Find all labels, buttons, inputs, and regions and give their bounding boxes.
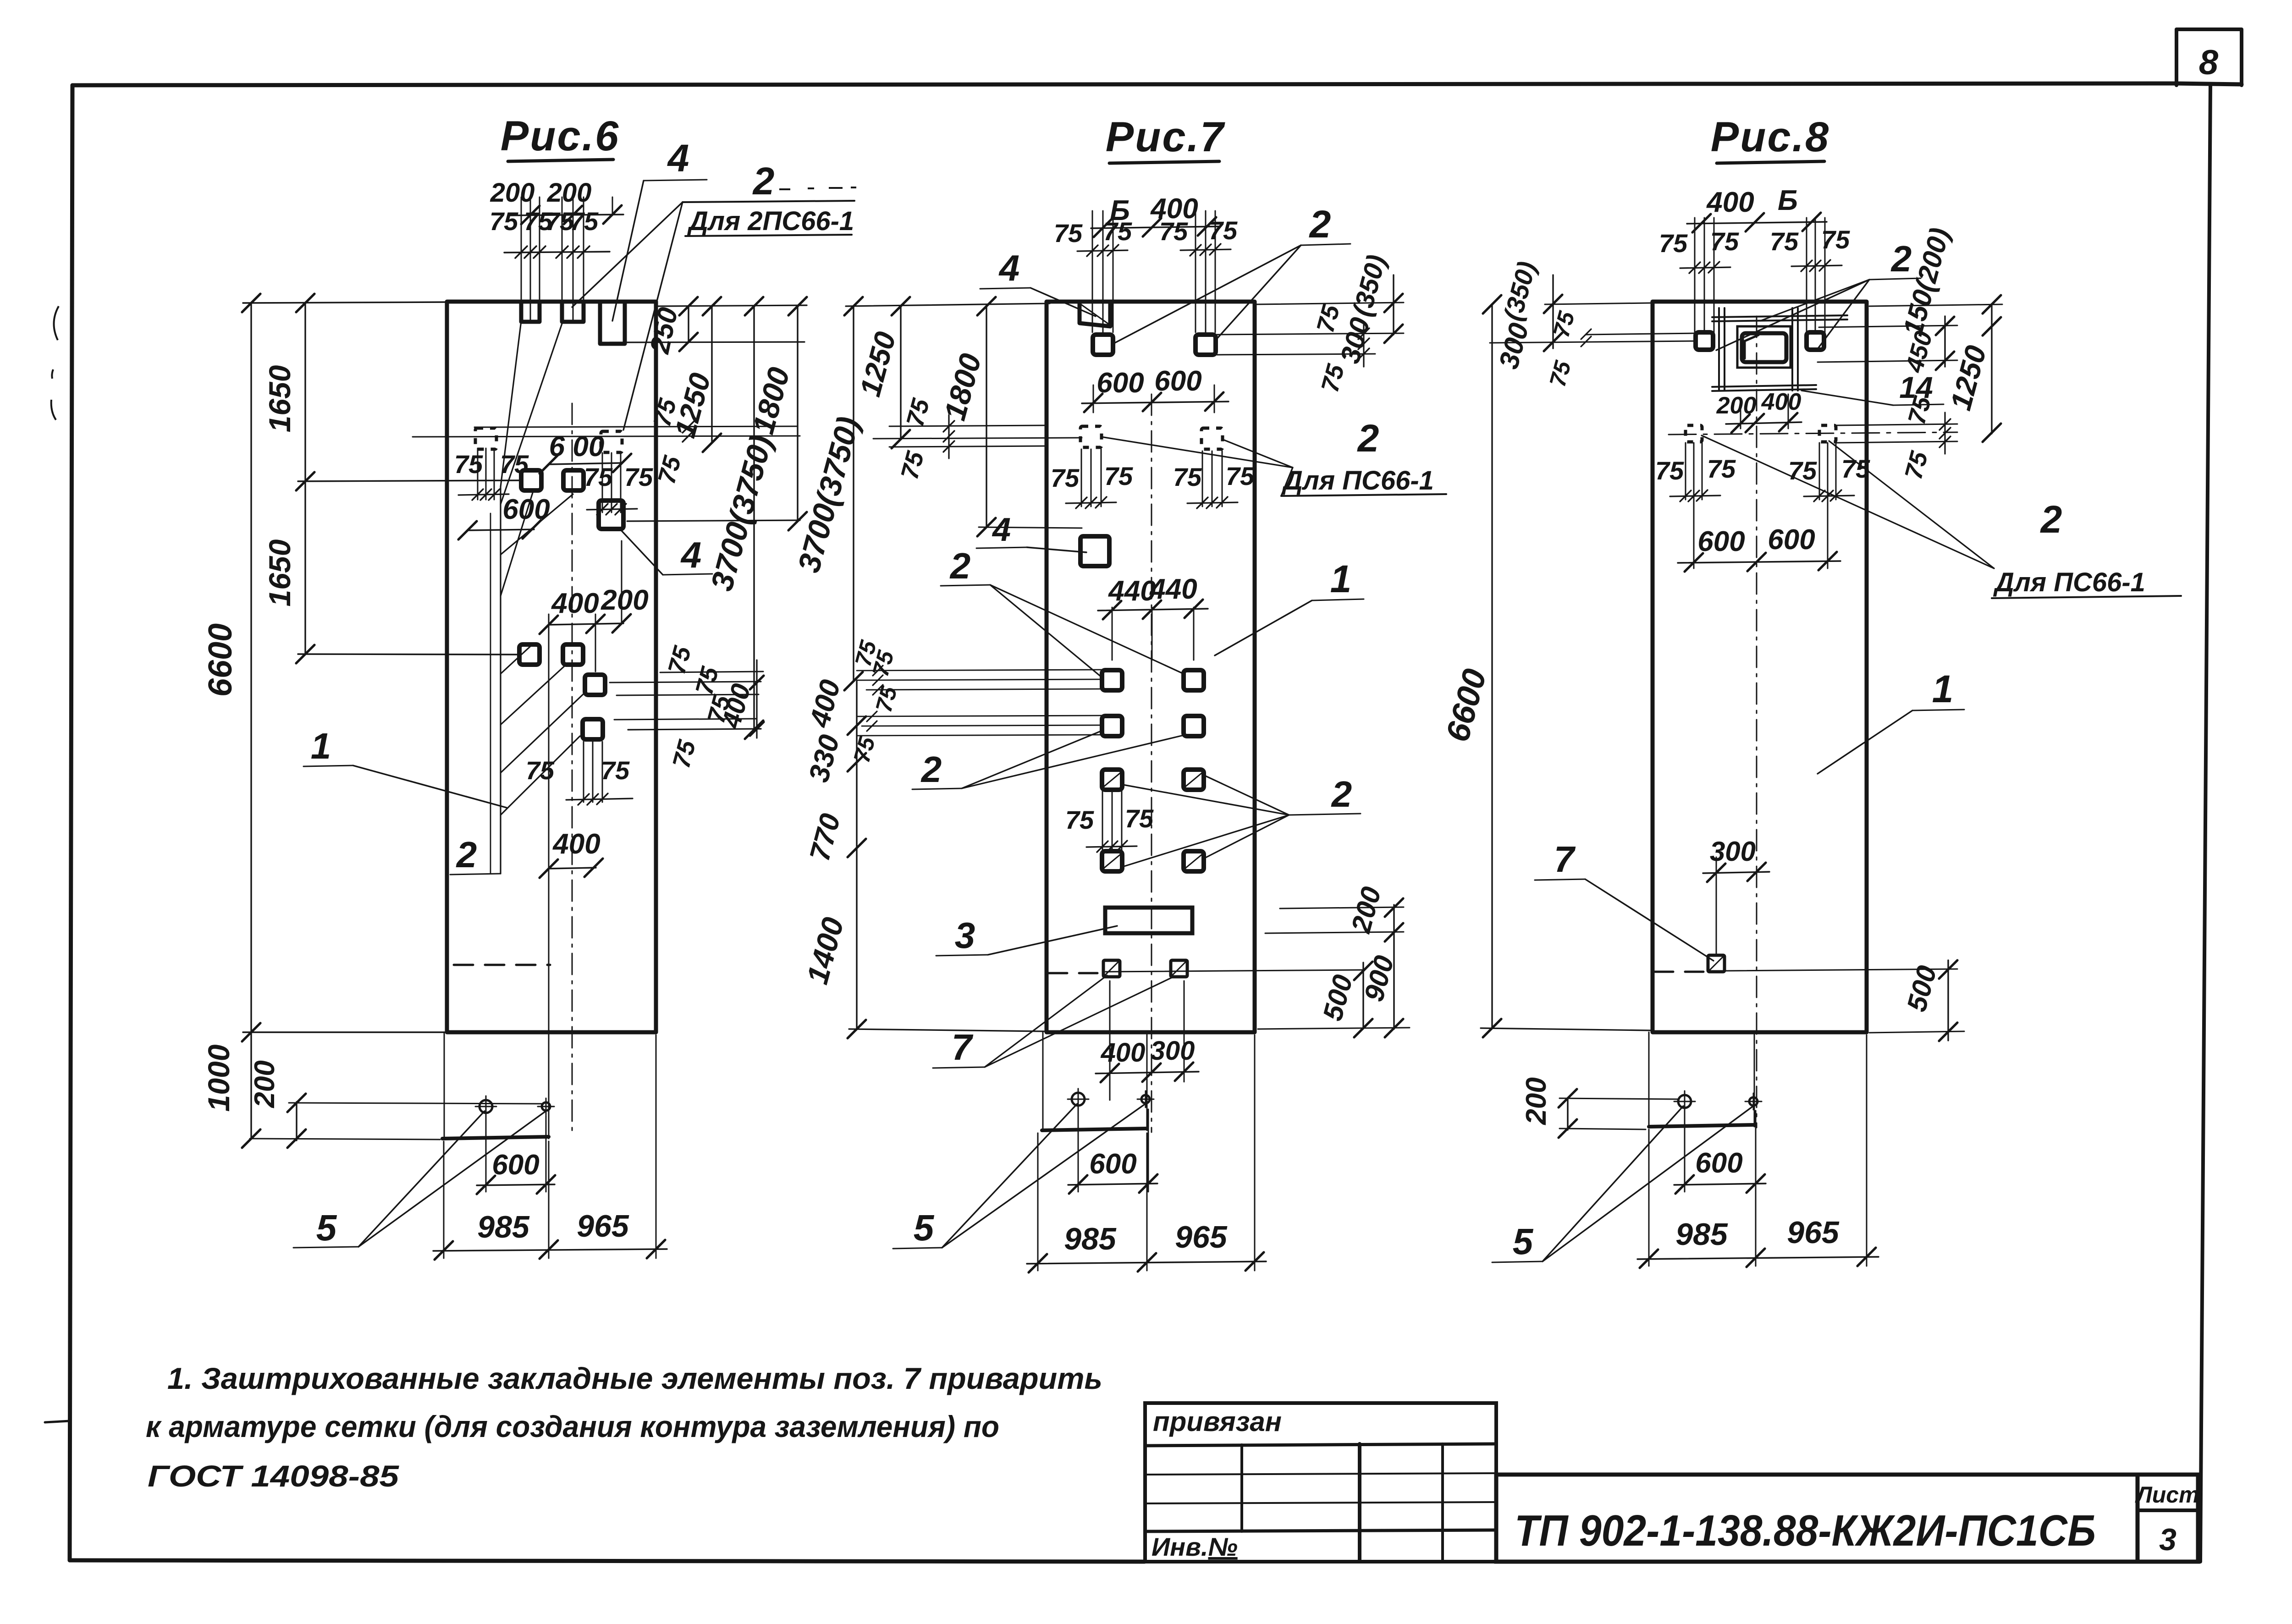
- fig6 embed square row3: [583, 719, 603, 739]
- fig7 grid embed B-right: [1184, 716, 1204, 736]
- fig6 dim 75 75 below row3: [526, 742, 633, 805]
- svg-text:965: 965: [1175, 1220, 1228, 1255]
- panel 1 outline (fig 7): [1047, 302, 1255, 1032]
- svg-text:4: 4: [998, 248, 1020, 288]
- fig7 leader label 2 (grid rows A): [941, 545, 1184, 677]
- svg-text:75: 75: [454, 450, 483, 479]
- fig6 leader label 2 (bottom) with riser: [450, 321, 562, 875]
- fig7 dim 300 (350) top right: [1334, 252, 1403, 367]
- fig6 embed square row2 left: [519, 644, 540, 665]
- fig6 embed item 4 plate: [599, 501, 623, 529]
- fig7 welded embed 7 left: [1103, 960, 1120, 977]
- svg-text:Для ПС66-1: Для ПС66-1: [1281, 466, 1434, 495]
- svg-text:75: 75: [1104, 462, 1133, 490]
- fig8 dim 75 75 (top left): [1659, 227, 1739, 273]
- svg-text:Рис.7: Рис.7: [1106, 114, 1225, 160]
- fig8 leader label 2 для ПС66-1: [1702, 435, 2181, 598]
- fig6 buried foot: [442, 1032, 549, 1139]
- fig8 centre line: [1756, 316, 1758, 1128]
- fig8 anchor horizontals bottom: [1712, 385, 1816, 387]
- fig8 embedded channel item 14: outer opening: [1737, 326, 1791, 368]
- svg-text:5: 5: [316, 1207, 337, 1248]
- fig8 dim 75 75 (top right): [1770, 225, 1850, 271]
- svg-text:2: 2: [1309, 203, 1331, 246]
- fig6 dim 400 (bottom of embeds): [540, 828, 603, 878]
- fig6 dim 1250: [668, 297, 721, 452]
- svg-text:965: 965: [577, 1209, 629, 1244]
- fig7 dim 75 75 (top left pair): [1054, 217, 1132, 256]
- fig7 buried foot: [1042, 1032, 1147, 1130]
- svg-text:400: 400: [1706, 187, 1754, 218]
- svg-text:2: 2: [949, 545, 971, 586]
- svg-text:600: 600: [1154, 365, 1201, 397]
- svg-text:200: 200: [249, 1060, 281, 1108]
- fig7 dim Б 400 (top): [1091, 193, 1219, 237]
- fig7 dim 3700(3750): [791, 297, 1050, 690]
- fig8 leader label 1: [1818, 667, 1964, 774]
- svg-text:2: 2: [1331, 774, 1352, 815]
- svg-text:1: 1: [1932, 667, 1954, 710]
- svg-text:8: 8: [2199, 43, 2219, 82]
- fig6 dim 1000: [202, 1044, 260, 1148]
- svg-text:75: 75: [526, 756, 555, 785]
- figure 6 title Рис.6: [501, 113, 620, 161]
- sheet box Лист: [2135, 1475, 2199, 1562]
- fig6 dim 600 (upper, written 6 00): [540, 431, 631, 473]
- svg-text:200: 200: [547, 178, 592, 208]
- fig7 lifting hole left: [1072, 1093, 1085, 1106]
- fig7 leader label 4 (top): [980, 248, 1096, 316]
- fig6 dim 75 75 left of row1: [454, 448, 529, 500]
- fig7 dim 75 75 right of row1: [1311, 302, 1369, 395]
- fig7 dim 1800: [937, 297, 1082, 536]
- svg-text:2: 2: [1890, 238, 1912, 279]
- svg-text:ТП 902-1-138.88-КЖ2И-ПС1СБ: ТП 902-1-138.88-КЖ2И-ПС1СБ: [1515, 1506, 2096, 1555]
- fig6 top notch item 4: [600, 302, 625, 344]
- fig7 top extension lines: [1092, 211, 1215, 332]
- fig7 dim 500 (right): [1317, 962, 1372, 1037]
- svg-text:75: 75: [1125, 804, 1154, 833]
- svg-text:привязан: привязан: [1153, 1406, 1282, 1437]
- svg-text:600: 600: [492, 1149, 539, 1181]
- fig6 dim 400 200: [540, 541, 649, 1054]
- fig7 grid embed D-right (hatched pos7): [1184, 851, 1204, 871]
- fig6 top notch 2: [562, 302, 584, 322]
- fig8 dim 75 75 (below dashed embeds right): [1788, 443, 1870, 501]
- svg-text:75: 75: [1051, 463, 1080, 492]
- svg-text:75: 75: [1209, 216, 1238, 245]
- fig6 top extension lines: [521, 197, 612, 321]
- fig7 leader label 3: [936, 915, 1117, 956]
- fig8 top extension lines: [1695, 218, 1825, 332]
- fig8 dashed embed left: [1686, 425, 1702, 442]
- title block small table: [1145, 1403, 1496, 1562]
- svg-text:300: 300: [1151, 1036, 1195, 1066]
- fig8 dim 600 600: [1678, 447, 1840, 572]
- fig8 leader label 2 (top): [1716, 238, 1921, 350]
- fig7 embed square row1 right: [1196, 335, 1216, 355]
- fig6 dim 985 965: [433, 1035, 667, 1260]
- svg-text:965: 965: [1787, 1215, 1840, 1250]
- svg-text:200: 200: [1716, 392, 1757, 419]
- fig8 left dim 200 (foot): [1521, 1077, 1678, 1138]
- fig6 embed square row1 right: [563, 470, 584, 490]
- fig8 dim 75 75 (below dashed embeds left): [1655, 443, 1736, 501]
- svg-text:2: 2: [456, 834, 477, 875]
- fig6 dim 200 200 (top): [490, 178, 623, 224]
- fig8 dim 985 965: [1637, 1035, 1879, 1268]
- fig6 leader label 4 (top): [612, 137, 707, 321]
- svg-text:Рис.6: Рис.6: [501, 113, 620, 160]
- svg-text:2: 2: [2040, 498, 2062, 541]
- fig6 dashed embed (left, for 2ПС66-1): [475, 428, 496, 449]
- fig6 dim 1650 upper: [263, 294, 523, 663]
- fig8 leader label 5: [1492, 1106, 1752, 1262]
- fig8 dim 200 400 (below item 14): [1716, 389, 1802, 433]
- svg-text:75: 75: [490, 207, 518, 236]
- svg-text:600: 600: [502, 494, 550, 525]
- svg-text:400: 400: [552, 828, 600, 860]
- fig6 dim 75 75 right of row1: [584, 453, 653, 515]
- fig6 embed square row2 right: [563, 644, 583, 665]
- svg-text:Инв.№: Инв.№: [1152, 1532, 1238, 1561]
- fig6 leader label 5: [293, 1111, 545, 1248]
- svg-text:75: 75: [624, 462, 653, 491]
- fig8 buried foot: [1649, 1032, 1754, 1127]
- fig6 right lower extension lines: [610, 643, 764, 771]
- fig7 dim 75 75 below grid C: [1065, 791, 1154, 852]
- svg-text:75: 75: [1710, 227, 1739, 256]
- svg-text:200: 200: [490, 178, 535, 208]
- svg-text:2: 2: [752, 160, 775, 203]
- fig8 right bottom extension lines: [1725, 969, 1964, 1033]
- title bar: [1496, 1475, 2138, 1562]
- fig7 lifting hole right: [1141, 1095, 1150, 1103]
- fig7 dim 75 75 below dashed embeds (left): [1051, 449, 1133, 508]
- svg-text:6600: 6600: [202, 623, 239, 697]
- svg-text:5: 5: [1513, 1221, 1534, 1262]
- fig7 grid embed A-left: [1102, 670, 1122, 690]
- fig8 embed square row1 right: [1807, 332, 1824, 350]
- fig8 item 14 inner plate: [1742, 333, 1786, 362]
- fig7 grid embed B-left: [1102, 716, 1122, 736]
- fig6 leader label 4 (mid): [622, 531, 712, 575]
- svg-text:200: 200: [1521, 1077, 1552, 1125]
- fig8 dim 1250: [1944, 295, 2001, 442]
- svg-text:Для ПС66-1: Для ПС66-1: [1993, 567, 2145, 597]
- svg-text:75: 75: [1821, 225, 1850, 254]
- fig7 grid embed C-left (hatched pos7): [1102, 770, 1122, 790]
- fig7 welded embed 7 right: [1171, 960, 1187, 977]
- svg-text:600: 600: [1768, 524, 1815, 556]
- fig6 lifting hole left (pos 5): [479, 1100, 492, 1113]
- fig8 lifting hole left: [1678, 1095, 1691, 1108]
- fig7 centre line: [1151, 394, 1152, 1132]
- fig8 leader label 7: [1535, 839, 1713, 961]
- fig8 leader label 14: [1802, 370, 1944, 405]
- fold tick on left border: [45, 1421, 70, 1422]
- fig6 leader label 1: [303, 726, 507, 808]
- fig7 embed item 4 plate: [1080, 536, 1109, 566]
- fig6 dashed ground level line: [454, 964, 550, 966]
- fig8 anchor horizontals top: [1712, 315, 1847, 317]
- svg-text:3: 3: [2159, 1522, 2176, 1557]
- fig7 top corner notch item 4: [1080, 302, 1110, 326]
- fig6 dashed embed (right, for 2ПС66-1): [601, 431, 622, 452]
- figure 7 title Рис.7: [1106, 114, 1225, 163]
- svg-text:4: 4: [992, 512, 1011, 548]
- fig7 leader label 2 для ПС66-1: [1281, 417, 1446, 496]
- fig8 lifting hole right: [1749, 1097, 1758, 1106]
- svg-text:4: 4: [667, 137, 689, 180]
- svg-text:2: 2: [1357, 417, 1379, 460]
- fig7 leader label 2 (top): [1115, 203, 1350, 343]
- svg-text:к арматуре сетки (для создания: к арматуре сетки (для создания контура з…: [146, 1409, 999, 1443]
- fig8 dim 150(200): [1897, 225, 1956, 339]
- panel 1 outline (fig 8): [1653, 302, 1867, 1032]
- svg-text:7: 7: [952, 1027, 974, 1068]
- svg-text:75: 75: [1659, 229, 1688, 258]
- fig7 dim 400 300 (bottom): [1096, 981, 1199, 1100]
- fig6 dim 600 (foot holes): [477, 1116, 555, 1194]
- fig7 grid embed C-right (hatched pos7): [1184, 770, 1204, 790]
- svg-text:ГОСТ 14098-85: ГОСТ 14098-85: [148, 1459, 399, 1493]
- fig7 dim 1250: [854, 297, 910, 448]
- svg-text:Б: Б: [1778, 185, 1798, 216]
- svg-text:600: 600: [1695, 1147, 1742, 1179]
- fig8 level line through dashed embeds: [1669, 432, 1957, 435]
- fig7 dim 75 75 below dashed embeds (right): [1173, 451, 1255, 508]
- fig7 leader label 1: [1215, 557, 1364, 655]
- fig8 dim 500 (right): [1901, 960, 1957, 1041]
- fig7 leader label 2 (grid rows B): [912, 731, 1184, 790]
- fig6 dim 1800: [746, 297, 807, 530]
- fig6 hatch band diagonals: [501, 493, 585, 815]
- svg-text:1650: 1650: [263, 539, 297, 606]
- svg-text:400: 400: [1101, 1038, 1146, 1068]
- fig7 dashed embed left (для ПС66-1): [1080, 426, 1102, 447]
- svg-text:4: 4: [680, 534, 702, 575]
- fig7 dashed ground line: [1049, 972, 1100, 974]
- fig7 dashed embed right (для ПС66-1): [1201, 428, 1223, 449]
- svg-text:75: 75: [1065, 805, 1094, 834]
- fig6 top notch 1: [521, 302, 540, 322]
- fig8 dim 75 75 (right of dashed embeds): [1836, 393, 1957, 482]
- fig6 dim 250: [644, 297, 698, 357]
- fig7 grid embed A-right: [1184, 670, 1204, 690]
- fig7 dim 75 75 (left mid cluster): [889, 396, 1047, 482]
- svg-text:75: 75: [584, 462, 613, 491]
- svg-text:75: 75: [1054, 219, 1083, 248]
- fig6 embed square row1 left: [521, 470, 541, 490]
- fig8 dashed ground line: [1655, 971, 1708, 973]
- fig8 right extension lines (window): [1818, 304, 2002, 362]
- fig8 item 14 flap diagonal: [1745, 335, 1758, 358]
- svg-text:7: 7: [1554, 839, 1576, 880]
- svg-text:75: 75: [570, 207, 599, 236]
- fig6 dim 75 75 75 75 (top): [490, 207, 610, 258]
- fig8 left dim 75 (pair): [1544, 308, 1696, 389]
- fig6 lifting hole right (pos 5): [542, 1102, 550, 1111]
- fig7 embed plate item 3: [1105, 908, 1192, 933]
- fig6 embed square row2 offset: [585, 675, 605, 695]
- fig7 dim 75 75 (top right pair): [1159, 216, 1238, 256]
- svg-text:75: 75: [1103, 217, 1132, 246]
- svg-text:2: 2: [920, 749, 942, 790]
- svg-text:75: 75: [1770, 227, 1799, 256]
- fig7 dim 985 965: [1027, 1035, 1266, 1272]
- svg-text:Для 2ПС66-1: Для 2ПС66-1: [687, 206, 854, 236]
- svg-text:5: 5: [914, 1207, 935, 1248]
- svg-text:200: 200: [601, 584, 648, 616]
- fig8 anchor verticals left: [1718, 308, 1720, 391]
- svg-text:75: 75: [1226, 462, 1255, 490]
- svg-text:985: 985: [477, 1210, 530, 1244]
- svg-text:75: 75: [1173, 462, 1202, 491]
- fig8 dim 6600: [1439, 295, 1650, 1037]
- svg-text:75: 75: [1707, 454, 1736, 483]
- fig7 grid row extension lines to left stack: [848, 637, 1103, 765]
- fig7 dim 440 440: [1098, 573, 1208, 660]
- fig6 centre line: [572, 403, 573, 1132]
- fig8 anchor verticals right: [1791, 308, 1793, 391]
- svg-text:Рис.8: Рис.8: [1711, 114, 1830, 160]
- svg-text:985: 985: [1064, 1222, 1117, 1256]
- svg-text:3: 3: [955, 915, 975, 956]
- fig7 leader label 2 (grid right): [1123, 774, 1361, 866]
- fig7 leader label 4 (mid): [976, 512, 1086, 552]
- svg-text:440: 440: [1107, 575, 1156, 607]
- svg-text:75: 75: [601, 756, 630, 785]
- figure 8 title Рис.8: [1711, 114, 1830, 163]
- fig7 dim 900 (right): [1358, 952, 1403, 1037]
- fig7 dim 200 (right): [1345, 884, 1403, 1029]
- fig8 dashed embed right: [1819, 425, 1836, 442]
- fig7 leader label 7: [933, 975, 1174, 1068]
- fig7 mid level line through dashed embeds: [873, 437, 1293, 468]
- fig7 leader label 5: [893, 1104, 1144, 1249]
- fig8 embed square row1 left: [1696, 332, 1713, 350]
- svg-text:1: 1: [311, 726, 331, 766]
- svg-text:1: 1: [1330, 557, 1352, 600]
- fig6 mid level lines through dashed embeds: [413, 396, 800, 487]
- fig7 left lower dim column 400 330 770 1400: [800, 677, 1044, 1038]
- fig6 dim 6600: [202, 294, 449, 1139]
- panel 1 outline (fig 6): [447, 302, 656, 1032]
- fig8 welded embed 7: [1708, 955, 1725, 972]
- svg-text:600: 600: [1096, 367, 1144, 399]
- fig6 dim 600 (row1): [458, 494, 550, 539]
- svg-text:75: 75: [1159, 217, 1188, 246]
- fig6 dim 200 (foot): [249, 1060, 543, 1148]
- fig6 right extension lines (top): [610, 305, 807, 730]
- fig6 dim 3700(3750): [704, 297, 779, 739]
- svg-text:600: 600: [1089, 1148, 1136, 1180]
- svg-text:985: 985: [1675, 1217, 1728, 1252]
- fig7 dim 600 600: [1082, 365, 1229, 413]
- fig8 dim 300 (above pos7): [1703, 836, 1769, 956]
- svg-text:400: 400: [551, 588, 599, 619]
- svg-text:Лист: Лист: [2135, 1482, 2199, 1508]
- fig7 dim 600 (foot holes): [1068, 1109, 1157, 1194]
- fig6 leader label 2 with Для 2ПС66-1: [572, 160, 856, 430]
- fig7 right bottom extension lines: [1106, 907, 1410, 1029]
- svg-text:300: 300: [1710, 836, 1756, 867]
- svg-text:1. Заштрихованные закладные: 1. Заштрихованные закладные элементы поз…: [167, 1361, 1102, 1395]
- svg-text:440: 440: [1149, 573, 1197, 605]
- fig7 grid embed D-left (hatched pos7): [1102, 851, 1122, 871]
- sheet number box 8: [2176, 29, 2242, 85]
- fig7 embed square row1 left: [1093, 335, 1113, 355]
- svg-text:6 00: 6 00: [549, 431, 605, 462]
- fig8 left dim 300 (350): [1490, 259, 1696, 372]
- fig8 dim 450: [1901, 316, 1954, 376]
- svg-text:600: 600: [1697, 526, 1745, 557]
- fig7 right top extension lines: [1217, 303, 1404, 355]
- svg-text:400: 400: [1761, 389, 1802, 415]
- svg-text:75: 75: [1655, 456, 1684, 485]
- svg-text:1000: 1000: [202, 1044, 236, 1112]
- fig8 dim 600 (foot holes): [1674, 1111, 1766, 1194]
- fig8 dim 400 Б (top): [1687, 185, 1827, 232]
- svg-text:1650: 1650: [263, 365, 297, 432]
